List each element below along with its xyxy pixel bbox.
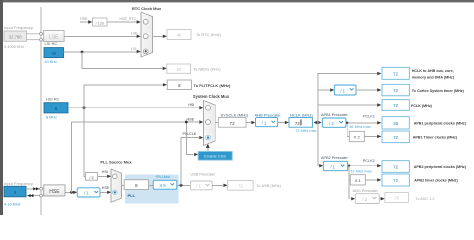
PreDiv dropdown /1: [77, 188, 100, 197]
svg-text:LSI: LSI: [131, 47, 136, 51]
svg-text:PCLK1: PCLK1: [363, 115, 375, 119]
svg-text:PCLK2: PCLK2: [363, 159, 375, 163]
svg-text:USB Prescaler: USB Prescaler: [190, 173, 216, 177]
divider /2: [86, 173, 98, 181]
AHB Prescaler dropdown: [255, 112, 282, 126]
svg-text:72: 72: [393, 165, 399, 170]
row APB2 timers X1: [349, 166, 459, 186]
svg-text:4-16 MHz: 4-16 MHz: [4, 202, 21, 206]
RTC Clock Mux: [132, 6, 162, 57]
wire HCLK to rail: [314, 121, 318, 125]
SYSCLK box: [218, 112, 249, 127]
svg-text:To ADC 1,2: To ADC 1,2: [415, 197, 434, 201]
PLL input box: [124, 180, 149, 190]
svg-text:/ 2: / 2: [362, 197, 367, 202]
row FCLK: [318, 100, 433, 111]
To IWDG box: [167, 64, 221, 73]
svg-text:32.768: 32.768: [9, 35, 22, 40]
svg-text:RTC Clock Mux: RTC Clock Mux: [132, 6, 162, 11]
LSE box: [44, 31, 65, 42]
svg-text:APB2 Prescaler: APB2 Prescaler: [321, 156, 349, 160]
frame top border: [0, 0, 474, 2]
svg-text:PLLCLK: PLLCLK: [183, 132, 197, 136]
wire to PLLMul: [149, 184, 154, 186]
svg-text:Input Frequency: Input Frequency: [4, 181, 33, 186]
svg-text:ADC Prescaler: ADC Prescaler: [353, 189, 379, 193]
pin OSC_OUT: [40, 194, 43, 197]
wire LSE to mux: [64, 35, 137, 37]
svg-text:72: 72: [393, 135, 399, 140]
svg-text:X 1: X 1: [355, 178, 362, 183]
svg-text:APB1 Timer clocks (MHz): APB1 Timer clocks (MHz): [413, 135, 458, 139]
row APB1 prescaler: [321, 113, 467, 129]
svg-text:/ 1: / 1: [330, 164, 335, 169]
HSI RC box: [44, 96, 68, 119]
svg-text:HSE: HSE: [102, 186, 110, 190]
row ADC prescaler: [349, 180, 435, 204]
svg-text:/ 128: / 128: [96, 22, 104, 26]
wire HSI to system mux: [68, 107, 199, 109]
To RTC box: [167, 30, 221, 40]
svg-text:To USB (MHz): To USB (MHz): [257, 184, 282, 188]
LSI RC box: [44, 41, 64, 64]
svg-text:X 9: X 9: [159, 183, 166, 188]
svg-text:/ 1: / 1: [340, 88, 345, 93]
svg-text:72 MHz max: 72 MHz max: [350, 169, 371, 173]
svg-text:40 KHz: 40 KHz: [45, 60, 58, 64]
svg-text:Enable CSS: Enable CSS: [204, 154, 226, 159]
svg-text:SYSCLK (MHz): SYSCLK (MHz): [221, 112, 249, 117]
junction CSS: [185, 121, 188, 124]
row Cortex timer: [318, 84, 465, 96]
svg-text:HSE: HSE: [187, 117, 195, 121]
wire HSE osc out: [26, 195, 44, 197]
svg-text:/ 1: / 1: [84, 190, 89, 195]
svg-text:APB1 peripheral clocks (MHz): APB1 peripheral clocks (MHz): [414, 121, 467, 125]
svg-text:System Clock Mux: System Clock Mux: [193, 94, 230, 99]
RTC mux input arrows: [137, 20, 141, 23]
svg-text:FCLK (MHz): FCLK (MHz): [411, 104, 433, 108]
wire PLLCLK out: [177, 184, 191, 186]
svg-text:72: 72: [393, 178, 399, 183]
svg-text:72: 72: [393, 103, 399, 108]
svg-text:36 MHz max: 36 MHz max: [349, 125, 370, 129]
svg-text:40: 40: [177, 33, 182, 38]
svg-text:/ 2: / 2: [329, 121, 334, 126]
svg-text:X 2: X 2: [354, 135, 361, 140]
wire PLLCLK to system mux: [181, 138, 199, 186]
svg-text:HSI: HSI: [188, 103, 194, 107]
svg-text:LSE: LSE: [49, 35, 59, 41]
wire CSS to mux: [207, 147, 209, 152]
svg-text:HCLK to AHB bus, core,: HCLK to AHB bus, core,: [412, 69, 454, 73]
svg-text:40: 40: [176, 67, 181, 72]
svg-text:AHB Prescaler: AHB Prescaler: [255, 112, 282, 117]
wire mux to PLL input: [121, 184, 124, 186]
HCLK fanout rail: [317, 73, 319, 123]
USB prescaler row: [190, 173, 281, 191]
frame left border: [0, 0, 3, 215]
pin OSC32_IN: [40, 32, 43, 35]
wire HSI to FLITF: [84, 85, 162, 108]
wire HSE osc in: [26, 188, 44, 190]
System Clock Mux: [193, 94, 230, 145]
wire SYSCLK: [215, 122, 218, 124]
svg-text:*PLLMul: *PLLMul: [156, 175, 171, 179]
svg-text:Input Frequency: Input Frequency: [4, 25, 33, 30]
svg-text:To IWDG (KHz): To IWDG (KHz): [193, 66, 221, 71]
svg-text:LSI RC: LSI RC: [45, 41, 58, 46]
svg-text:APB2 peripheral clocks (MHz): APB2 peripheral clocks (MHz): [414, 165, 467, 169]
svg-text:72: 72: [393, 72, 399, 77]
svg-text:To FLITFCLK (MHz): To FLITFCLK (MHz): [194, 83, 231, 88]
wire AHB to HCLK: [278, 122, 285, 124]
svg-text:/ 1: / 1: [196, 184, 201, 189]
junction LSI: [81, 51, 84, 54]
svg-text:72 MHz max: 72 MHz max: [295, 129, 316, 133]
wire HSE out: [65, 191, 73, 193]
PLL panel: [125, 175, 179, 204]
To FLITFCLK box: [167, 80, 231, 90]
PLL Source Mux: [100, 160, 132, 203]
svg-text:8 MHz: 8 MHz: [46, 115, 57, 119]
row APB1 timers X2: [347, 123, 458, 143]
svg-text:HSI RC: HSI RC: [46, 96, 60, 101]
row HCLK to AHB bus: [318, 67, 455, 79]
wire LSE osc out: [27, 39, 44, 41]
pin OSC32_OUT: [40, 38, 43, 41]
svg-text:40: 40: [51, 51, 56, 56]
wire LSI to IWDG: [82, 52, 162, 68]
LSE input frequency box: [4, 25, 33, 49]
svg-text:PLL: PLL: [128, 193, 136, 198]
row APB2 prescaler: [318, 156, 467, 174]
svg-text:APB1 Prescaler: APB1 Prescaler: [321, 113, 349, 117]
wire HSE_RTC to mux: [107, 21, 137, 23]
wire HSE to CSS: [186, 122, 193, 154]
System mux input arrows: [199, 106, 203, 109]
svg-text:72: 72: [230, 121, 236, 126]
wire RTC mux out: [153, 35, 163, 37]
svg-text:0-1000 KHz: 0-1000 KHz: [4, 45, 24, 49]
svg-text:APB2 timer clocks (MHz): APB2 timer clocks (MHz): [414, 179, 458, 183]
svg-text:/ 2: / 2: [89, 176, 93, 180]
svg-text:/ 1: / 1: [262, 120, 267, 125]
svg-text:HSE: HSE: [80, 17, 88, 21]
svg-text:36: 36: [393, 121, 399, 126]
svg-text:72: 72: [393, 88, 399, 93]
wire LSE osc in: [27, 33, 44, 35]
wire HSI/2 to PLL mux: [98, 175, 108, 177]
wire HSE up to system mux: [72, 122, 200, 192]
junction HSE: [70, 191, 73, 194]
PLLMul dropdown X9: [153, 180, 177, 189]
wire prediv to PLL mux: [100, 191, 107, 193]
svg-text:HSI: HSI: [102, 170, 108, 174]
svg-text:To RTC (KHz): To RTC (KHz): [196, 32, 221, 37]
pin OSC_IN: [40, 187, 43, 190]
HSE input frequency box: [4, 181, 33, 206]
svg-text:72: 72: [295, 121, 301, 126]
wire LSI to RTC mux: [64, 51, 138, 53]
divider /128: [93, 18, 108, 26]
svg-text:memory and DMA (MHz): memory and DMA (MHz): [412, 75, 455, 79]
junction PLLCLK: [180, 184, 183, 187]
svg-text:To Cortex System timer (MHz): To Cortex System timer (MHz): [412, 89, 465, 93]
HCLK input box: [289, 112, 317, 133]
svg-text:PLL Source Mux: PLL Source Mux: [100, 160, 132, 165]
HSE box: [44, 185, 65, 196]
svg-text:HCLK (MHz): HCLK (MHz): [290, 112, 313, 117]
svg-text:72: 72: [238, 184, 243, 189]
wire HSE to /128: [80, 21, 88, 23]
Enable CSS button: [198, 152, 232, 161]
wire SYSCLK to AHB: [246, 122, 251, 124]
svg-text:HSE: HSE: [49, 189, 60, 195]
node rail (MCU boundary): [40, 7, 42, 215]
svg-text:HSE_RTC: HSE_RTC: [120, 17, 137, 21]
svg-text:36: 36: [394, 196, 399, 201]
wire HSI to PLL div2: [84, 108, 86, 177]
junction HSI: [83, 106, 86, 109]
